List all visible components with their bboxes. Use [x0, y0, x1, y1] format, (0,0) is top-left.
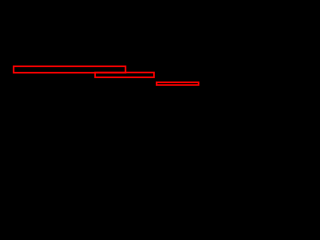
bar 1 (top-level span): [14, 66, 126, 72]
bar 2 (middle span): [95, 73, 154, 78]
bar 3 (bottom-right span): [157, 82, 199, 85]
